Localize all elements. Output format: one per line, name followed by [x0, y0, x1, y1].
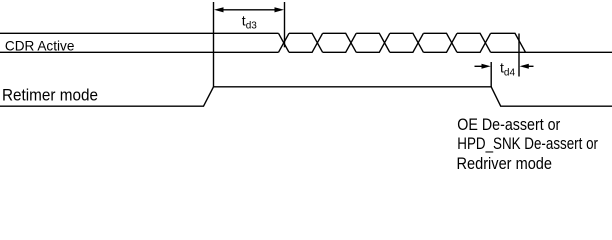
wire CDR bus top line (open segment) — [0, 32, 279, 34]
wire td3 dimension line — [222, 9, 276, 11]
wire CDR bottom line continuing to right edge — [491, 51, 612, 53]
node td4 left arrowhead (points right) — [482, 64, 491, 69]
wire td4 right arrow tail — [523, 65, 534, 67]
node td3 right arrowhead — [275, 7, 285, 12]
node td3 left arrowhead — [214, 7, 224, 12]
wire Retimer mode waveform — [0, 87, 612, 106]
wire td4 left extension line — [490, 62, 492, 87]
node td4 right arrowhead (points left) — [520, 64, 529, 69]
svg-text:CDR Active: CDR Active — [5, 38, 75, 54]
wire td4 right extension line — [518, 34, 520, 77]
svg-text:Retimer mode: Retimer mode — [2, 85, 98, 104]
svg-text:HPD_SNK De-assert or: HPD_SNK De-assert or — [457, 135, 598, 153]
wire td3 right extension line — [284, 2, 286, 47]
wire td3 left extension line — [213, 2, 215, 87]
wire CDR bus bottom line (open segment) — [0, 51, 279, 53]
wire CDR final transition to low — [491, 33, 526, 52]
svg-text:OE De-assert or: OE De-assert or — [457, 116, 560, 134]
wire td4 left arrow tail — [475, 65, 489, 67]
node CDR bus crossing pattern — [279, 33, 491, 52]
svg-text:Redriver mode: Redriver mode — [457, 155, 553, 172]
